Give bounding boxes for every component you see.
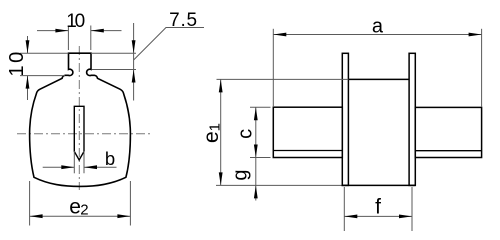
dim line: [43, 166, 75, 168]
dimension f: ext lines: [343, 187, 345, 231]
svg-text:f: f: [375, 195, 381, 218]
fuse body outline: [30, 53, 131, 186]
dim line: [344, 215, 412, 217]
dim line: [220, 79, 222, 185]
right bar (blade): [415, 107, 481, 157]
svg-text:b: b: [105, 148, 115, 169]
left blade plate: [342, 53, 348, 185]
dimension 7.5: vertical line: [133, 23, 135, 101]
svg-text:7.5: 7.5: [169, 10, 198, 31]
arrow up to 69.5: [132, 70, 136, 83]
right blade plate: [409, 53, 415, 185]
dimension e2: extension lines: [29, 181, 31, 226]
arrows: [273, 33, 286, 37]
arrow up: [26, 76, 30, 89]
left bar (blade): [273, 107, 342, 157]
body top edge: [348, 78, 409, 80]
arrow down: [26, 40, 30, 53]
arrows: [344, 215, 357, 219]
arrows: [254, 107, 258, 120]
arrows: [219, 79, 223, 92]
svg-text:0: 0: [75, 11, 86, 32]
dim line: [30, 215, 131, 217]
arrow left toward right ext: [91, 29, 104, 33]
arrow down to 53.2: [132, 40, 136, 53]
svg-text:g: g: [230, 169, 252, 180]
dimension 10 (top): dim line: [37, 30, 68, 32]
dimension g: line + outside arrow: [255, 158, 257, 201]
svg-text:a: a: [372, 16, 384, 38]
striker indicator: [74, 106, 84, 160]
leader: [134, 28, 204, 61]
arrow right toward left ext: [55, 29, 68, 33]
body bottom edge: [342, 184, 416, 186]
dim line: [255, 107, 257, 157]
centerline horizontal: [17, 133, 153, 135]
svg-text:c: c: [234, 129, 256, 139]
svg-text:10: 10: [6, 49, 28, 76]
dimension e1: ext lines: [217, 78, 349, 80]
dimension a: ext lines: [272, 29, 274, 107]
arrows: [30, 214, 43, 218]
dimension 10 (left): dim line: [27, 36, 29, 53]
dim line: [273, 34, 481, 36]
dimension 10 (left): extension lines: [20, 52, 68, 54]
centerline vertical: [78, 46, 80, 190]
dimension c: ext lines: [250, 106, 271, 108]
dimension b: extension lines: [73, 151, 75, 173]
dimension 10 (top): extension lines: [67, 26, 69, 51]
ext line at notch top: [92, 69, 137, 71]
arrows: [61, 165, 74, 169]
